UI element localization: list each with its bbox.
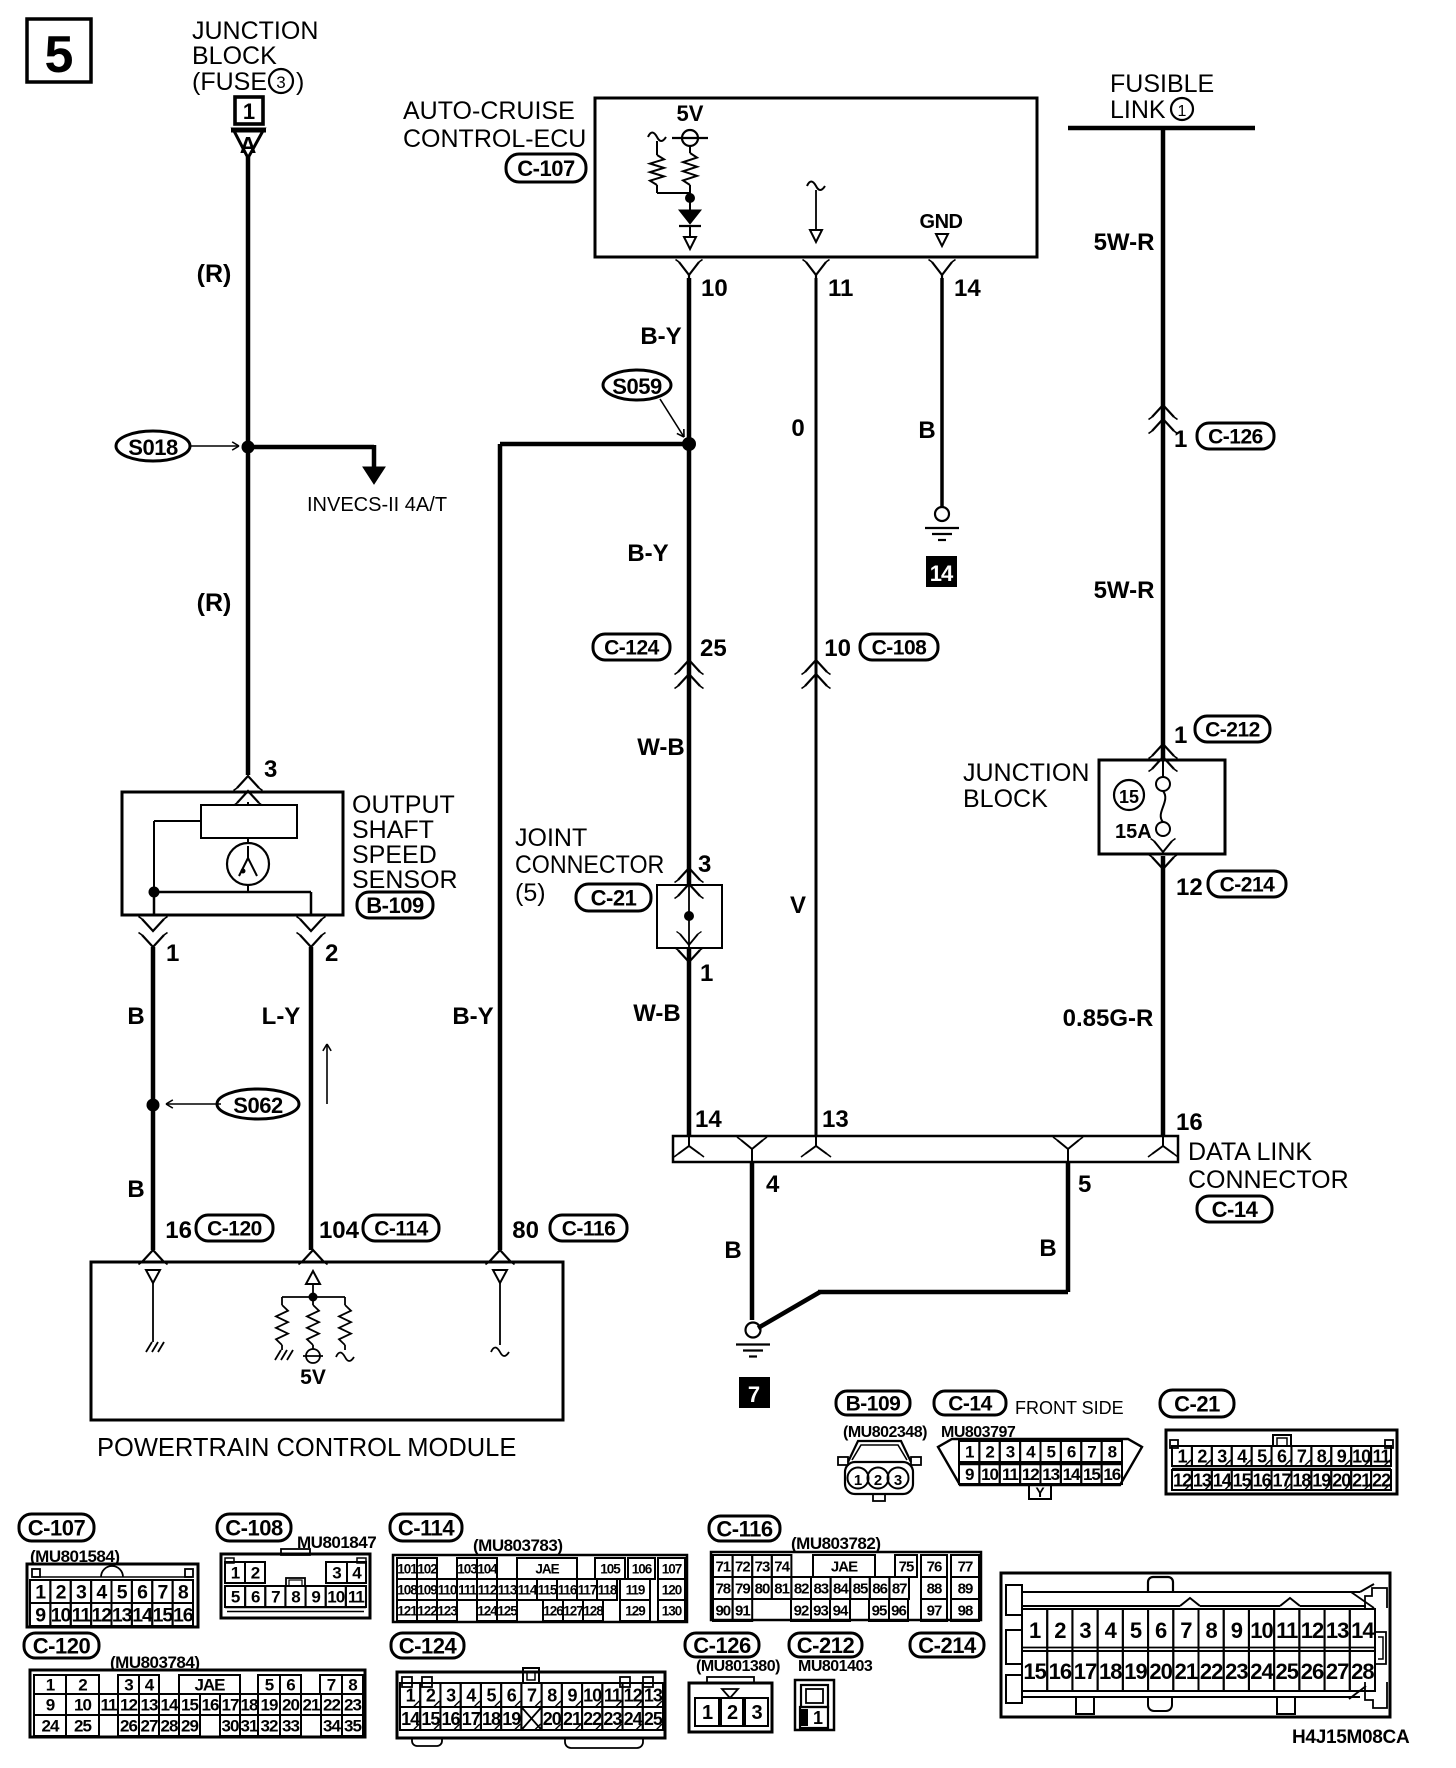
svg-text:16: 16 [1176, 1109, 1203, 1136]
svg-text:12: 12 [1301, 1618, 1324, 1643]
svg-text:2: 2 [325, 940, 338, 967]
svg-text:21: 21 [303, 1696, 320, 1715]
svg-text:128: 128 [583, 1603, 604, 1618]
svg-text:5: 5 [1130, 1618, 1142, 1643]
svg-text:81: 81 [774, 1580, 789, 1597]
svg-text:2: 2 [985, 1443, 994, 1462]
svg-text:116: 116 [558, 1582, 578, 1597]
svg-text:5: 5 [487, 1685, 497, 1705]
svg-text:11: 11 [348, 1588, 365, 1607]
svg-text:C-114: C-114 [374, 1218, 428, 1241]
svg-text:C-214: C-214 [1220, 874, 1276, 897]
svg-text:107: 107 [662, 1561, 682, 1576]
svg-text:94: 94 [833, 1602, 849, 1619]
svg-text:11: 11 [1002, 1465, 1019, 1484]
svg-text:102: 102 [417, 1561, 437, 1576]
svg-text:7: 7 [1180, 1618, 1192, 1643]
svg-text:(5): (5) [515, 879, 546, 907]
svg-text:C-214: C-214 [918, 1633, 977, 1658]
svg-text:AUTO-CRUISE: AUTO-CRUISE [403, 97, 575, 125]
svg-text:30: 30 [222, 1717, 239, 1736]
svg-text:22: 22 [323, 1696, 340, 1715]
svg-text:97: 97 [927, 1602, 942, 1619]
svg-text:84: 84 [833, 1580, 849, 1597]
svg-text:4: 4 [352, 1564, 362, 1583]
svg-text:4: 4 [1105, 1618, 1118, 1643]
svg-text:8: 8 [348, 1676, 357, 1695]
svg-text:28: 28 [161, 1717, 178, 1736]
svg-text:11: 11 [72, 1605, 92, 1627]
svg-text:13: 13 [822, 1106, 849, 1133]
svg-text:127: 127 [563, 1603, 583, 1618]
svg-text:7: 7 [748, 1382, 760, 1407]
svg-text:15: 15 [1119, 787, 1139, 807]
svg-text:C-21: C-21 [591, 885, 637, 910]
svg-text:33: 33 [282, 1717, 299, 1736]
svg-text:C-126: C-126 [1208, 426, 1263, 449]
svg-text:19: 19 [261, 1696, 278, 1715]
svg-text:5: 5 [117, 1582, 128, 1604]
svg-text:S018: S018 [128, 435, 178, 460]
svg-text:1: 1 [700, 960, 713, 987]
svg-text:15: 15 [181, 1696, 198, 1715]
svg-text:75: 75 [899, 1558, 914, 1575]
svg-text:B-109: B-109 [846, 1393, 901, 1416]
svg-text:8: 8 [291, 1588, 300, 1607]
svg-text:8: 8 [1317, 1446, 1327, 1466]
svg-text:17: 17 [1272, 1470, 1291, 1490]
svg-text:5V: 5V [677, 101, 704, 126]
svg-text:101: 101 [397, 1561, 418, 1576]
svg-text:26: 26 [1301, 1659, 1324, 1684]
svg-text:2: 2 [78, 1676, 87, 1695]
svg-text:5V: 5V [300, 1366, 326, 1389]
svg-text:12: 12 [91, 1605, 112, 1627]
svg-text:20: 20 [1332, 1470, 1351, 1490]
svg-text:19: 19 [1124, 1659, 1147, 1684]
svg-text:0.85G-R: 0.85G-R [1063, 1005, 1154, 1032]
svg-text:72: 72 [735, 1558, 750, 1575]
svg-text:32: 32 [261, 1717, 278, 1736]
svg-text:35: 35 [344, 1717, 361, 1736]
svg-text:6: 6 [1155, 1618, 1167, 1643]
svg-text:79: 79 [735, 1580, 750, 1597]
svg-text:106: 106 [632, 1561, 653, 1576]
svg-text:88: 88 [927, 1580, 942, 1597]
svg-text:82: 82 [794, 1580, 809, 1597]
svg-text:1: 1 [1178, 103, 1187, 120]
svg-text:7: 7 [327, 1676, 336, 1695]
svg-text:1: 1 [1177, 1446, 1187, 1466]
svg-text:10: 10 [51, 1605, 72, 1627]
svg-text:11: 11 [1276, 1618, 1298, 1643]
svg-text:1: 1 [1029, 1618, 1041, 1643]
svg-text:SPEED: SPEED [352, 841, 437, 869]
svg-text:31: 31 [241, 1717, 258, 1736]
svg-text:C-108: C-108 [225, 1515, 283, 1540]
svg-text:5W-R: 5W-R [1094, 229, 1155, 256]
svg-text:9: 9 [35, 1605, 46, 1627]
svg-text:(MU803782): (MU803782) [791, 1534, 881, 1553]
svg-text:14: 14 [1063, 1465, 1081, 1484]
svg-text:18: 18 [1099, 1659, 1122, 1684]
svg-text:85: 85 [853, 1580, 868, 1597]
svg-text:0: 0 [791, 415, 804, 442]
svg-text:8: 8 [547, 1685, 557, 1705]
svg-text:114: 114 [518, 1582, 538, 1597]
svg-text:129: 129 [625, 1603, 645, 1618]
svg-text:L-Y: L-Y [262, 1003, 301, 1030]
svg-text:4: 4 [1026, 1443, 1036, 1462]
svg-text:5: 5 [45, 26, 74, 84]
svg-text:2: 2 [727, 1702, 738, 1724]
svg-text:JUNCTION: JUNCTION [192, 17, 318, 45]
svg-text:B: B [1039, 1235, 1056, 1262]
svg-text:1: 1 [46, 1676, 55, 1695]
svg-text:92: 92 [794, 1602, 809, 1619]
svg-text:112: 112 [478, 1582, 497, 1597]
svg-text:B-Y: B-Y [640, 323, 681, 350]
svg-text:3: 3 [1079, 1618, 1091, 1643]
svg-text:121: 121 [397, 1603, 418, 1618]
svg-text:14: 14 [695, 1106, 722, 1133]
svg-text:1: 1 [35, 1582, 46, 1604]
svg-text:6: 6 [286, 1676, 295, 1695]
svg-text:5: 5 [1046, 1443, 1055, 1462]
svg-text:104: 104 [319, 1217, 360, 1244]
svg-text:10: 10 [1250, 1618, 1273, 1643]
svg-text:27: 27 [141, 1717, 158, 1736]
svg-text:18: 18 [241, 1696, 258, 1715]
svg-text:8: 8 [178, 1582, 189, 1604]
svg-text:(MU801380): (MU801380) [696, 1658, 780, 1675]
svg-text:20: 20 [1149, 1659, 1172, 1684]
svg-text:2: 2 [251, 1564, 260, 1583]
svg-text:10: 10 [701, 275, 728, 302]
svg-text:SENSOR: SENSOR [352, 866, 458, 894]
svg-text:77: 77 [958, 1558, 973, 1575]
svg-text:7: 7 [527, 1685, 537, 1705]
svg-text:5: 5 [1078, 1171, 1091, 1198]
svg-text:): ) [296, 68, 304, 96]
svg-text:2: 2 [426, 1685, 436, 1705]
svg-text:7: 7 [158, 1582, 168, 1604]
svg-text:C-21: C-21 [1174, 1391, 1220, 1416]
svg-text:9: 9 [567, 1685, 577, 1705]
svg-text:16: 16 [1253, 1470, 1272, 1490]
svg-text:23: 23 [344, 1696, 361, 1715]
svg-text:13: 13 [1042, 1465, 1059, 1484]
svg-text:20: 20 [282, 1696, 299, 1715]
svg-text:14: 14 [1351, 1618, 1375, 1643]
svg-text:11: 11 [1373, 1446, 1391, 1466]
svg-text:15: 15 [1233, 1470, 1252, 1490]
svg-text:B-109: B-109 [366, 893, 424, 918]
svg-text:3: 3 [76, 1582, 87, 1604]
svg-text:C-107: C-107 [28, 1515, 86, 1540]
svg-text:3: 3 [894, 1472, 902, 1489]
svg-text:3: 3 [124, 1676, 133, 1695]
svg-text:12: 12 [1022, 1465, 1039, 1484]
svg-text:B: B [724, 1237, 741, 1264]
svg-text:10: 10 [74, 1696, 91, 1715]
svg-text:2: 2 [56, 1582, 67, 1604]
svg-text:JAE: JAE [831, 1558, 858, 1575]
svg-text:16: 16 [173, 1605, 194, 1627]
svg-text:83: 83 [813, 1580, 828, 1597]
svg-text:111: 111 [458, 1582, 478, 1597]
svg-text:6: 6 [251, 1588, 260, 1607]
svg-text:C-212: C-212 [797, 1633, 855, 1658]
svg-text:BLOCK: BLOCK [963, 785, 1048, 813]
svg-text:FUSIBLE: FUSIBLE [1110, 70, 1214, 98]
svg-text:2: 2 [874, 1472, 882, 1489]
svg-text:9: 9 [1231, 1618, 1243, 1643]
svg-text:4: 4 [1237, 1446, 1247, 1466]
svg-text:3: 3 [264, 756, 277, 783]
svg-text:V: V [790, 892, 806, 919]
svg-text:CONTROL-ECU: CONTROL-ECU [403, 125, 586, 153]
svg-text:FRONT SIDE: FRONT SIDE [1015, 1398, 1124, 1418]
svg-text:C-120: C-120 [207, 1218, 262, 1241]
svg-text:JUNCTION: JUNCTION [963, 759, 1089, 787]
svg-text:80: 80 [755, 1580, 770, 1597]
svg-text:87: 87 [892, 1580, 907, 1597]
svg-text:119: 119 [626, 1582, 645, 1597]
svg-text:16: 16 [165, 1217, 192, 1244]
svg-text:25: 25 [74, 1717, 91, 1736]
svg-text:B: B [127, 1176, 144, 1203]
svg-text:120: 120 [662, 1582, 682, 1597]
svg-text:25: 25 [700, 635, 727, 662]
svg-text:2: 2 [1054, 1618, 1066, 1643]
svg-text:10: 10 [981, 1465, 998, 1484]
svg-text:C-14: C-14 [1212, 1197, 1259, 1222]
svg-text:113: 113 [498, 1582, 518, 1597]
svg-text:80: 80 [512, 1217, 539, 1244]
svg-text:16: 16 [202, 1696, 219, 1715]
svg-text:DATA LINK: DATA LINK [1188, 1138, 1312, 1166]
svg-text:C-124: C-124 [604, 637, 660, 660]
svg-text:6: 6 [507, 1685, 517, 1705]
svg-text:123: 123 [437, 1603, 458, 1618]
svg-text:1: 1 [965, 1443, 974, 1462]
svg-text:71: 71 [715, 1558, 730, 1575]
svg-text:C-108: C-108 [872, 637, 928, 660]
svg-text:C-114: C-114 [398, 1515, 455, 1540]
svg-text:86: 86 [872, 1580, 887, 1597]
svg-text:Y: Y [1035, 1484, 1045, 1500]
svg-text:C-116: C-116 [562, 1218, 616, 1241]
svg-text:7: 7 [271, 1588, 280, 1607]
svg-text:130: 130 [662, 1603, 682, 1618]
svg-text:B-Y: B-Y [452, 1003, 493, 1030]
svg-text:W-B: W-B [633, 1000, 681, 1027]
svg-text:125: 125 [497, 1603, 518, 1618]
svg-text:4: 4 [466, 1685, 476, 1705]
svg-text:C-124: C-124 [399, 1633, 458, 1658]
svg-text:B: B [127, 1003, 144, 1030]
svg-text:10: 10 [1352, 1446, 1371, 1466]
svg-text:3: 3 [1217, 1446, 1227, 1466]
svg-text:(R): (R) [197, 260, 232, 288]
svg-text:S062: S062 [233, 1093, 283, 1118]
svg-text:78: 78 [715, 1580, 730, 1597]
svg-text:14: 14 [930, 561, 954, 586]
svg-text:14: 14 [161, 1696, 179, 1715]
svg-text:10: 10 [327, 1588, 344, 1607]
svg-text:17: 17 [1074, 1659, 1097, 1684]
svg-text:JAE: JAE [535, 1561, 559, 1576]
svg-text:25: 25 [1276, 1659, 1299, 1684]
svg-text:7: 7 [1297, 1446, 1307, 1466]
svg-text:C-126: C-126 [693, 1633, 751, 1658]
svg-text:A: A [240, 132, 257, 158]
svg-text:1: 1 [243, 99, 255, 124]
svg-text:(R): (R) [197, 589, 232, 617]
svg-text:GND: GND [920, 211, 963, 233]
svg-text:13: 13 [141, 1696, 158, 1715]
svg-text:24: 24 [42, 1717, 60, 1736]
svg-text:13: 13 [1326, 1618, 1349, 1643]
svg-text:1: 1 [702, 1702, 713, 1724]
svg-text:INVECS-II 4A/T: INVECS-II 4A/T [307, 494, 447, 516]
svg-text:12: 12 [120, 1696, 137, 1715]
svg-text:13: 13 [1193, 1470, 1212, 1490]
svg-text:LINK: LINK [1110, 96, 1166, 124]
svg-text:1: 1 [1174, 722, 1187, 749]
svg-text:12: 12 [1176, 874, 1203, 901]
svg-text:1: 1 [1174, 426, 1187, 453]
svg-text:26: 26 [120, 1717, 137, 1736]
svg-text:(MU802348): (MU802348) [843, 1424, 927, 1441]
svg-text:9: 9 [1337, 1446, 1347, 1466]
svg-text:6: 6 [1277, 1446, 1287, 1466]
svg-text:5: 5 [1257, 1446, 1267, 1466]
svg-text:13: 13 [112, 1605, 133, 1627]
svg-text:21: 21 [1352, 1470, 1371, 1490]
svg-text:3: 3 [751, 1702, 762, 1724]
svg-text:POWERTRAIN CONTROL MODULE: POWERTRAIN CONTROL MODULE [97, 1434, 516, 1462]
svg-text:9: 9 [311, 1588, 320, 1607]
svg-text:16: 16 [1103, 1465, 1120, 1484]
svg-text:C-212: C-212 [1205, 719, 1260, 742]
svg-text:(MU803783): (MU803783) [473, 1536, 563, 1555]
svg-text:12: 12 [1173, 1470, 1192, 1490]
svg-text:1: 1 [231, 1564, 240, 1583]
svg-text:93: 93 [813, 1602, 828, 1619]
svg-text:122: 122 [417, 1603, 437, 1618]
svg-text:2: 2 [1197, 1446, 1207, 1466]
svg-text:9: 9 [46, 1696, 55, 1715]
svg-text:118: 118 [598, 1582, 618, 1597]
svg-text:103: 103 [457, 1561, 478, 1576]
svg-text:4: 4 [766, 1171, 780, 1198]
svg-text:MU801403: MU801403 [798, 1658, 873, 1675]
svg-text:95: 95 [872, 1602, 887, 1619]
svg-text:109: 109 [417, 1582, 437, 1597]
svg-text:11: 11 [101, 1696, 118, 1715]
svg-text:117: 117 [578, 1582, 597, 1597]
svg-text:3: 3 [332, 1564, 341, 1583]
svg-text:4: 4 [96, 1582, 107, 1604]
svg-text:JAE: JAE [194, 1676, 225, 1695]
svg-text:OUTPUT: OUTPUT [352, 791, 455, 819]
svg-text:3: 3 [698, 851, 711, 878]
svg-text:B-Y: B-Y [627, 540, 668, 567]
svg-text:124: 124 [477, 1603, 498, 1618]
svg-text:C-107: C-107 [517, 156, 575, 181]
svg-text:C-14: C-14 [948, 1393, 992, 1416]
svg-text:S059: S059 [612, 374, 662, 399]
svg-text:74: 74 [774, 1558, 790, 1575]
svg-text:115: 115 [538, 1582, 558, 1597]
svg-text:19: 19 [1312, 1470, 1331, 1490]
svg-text:1: 1 [854, 1472, 862, 1489]
svg-text:1: 1 [406, 1685, 416, 1705]
svg-text:73: 73 [755, 1558, 770, 1575]
svg-text:15: 15 [153, 1605, 174, 1627]
svg-text:8: 8 [1205, 1618, 1217, 1643]
svg-text:96: 96 [891, 1602, 906, 1619]
svg-text:89: 89 [958, 1580, 973, 1597]
svg-text:8: 8 [1108, 1443, 1117, 1462]
svg-text:B: B [918, 417, 935, 444]
svg-text:11: 11 [828, 275, 853, 302]
svg-text:SHAFT: SHAFT [352, 816, 434, 844]
svg-text:27: 27 [1326, 1659, 1349, 1684]
svg-text:98: 98 [958, 1602, 973, 1619]
svg-text:90: 90 [715, 1602, 730, 1619]
svg-text:JOINT: JOINT [515, 824, 587, 852]
svg-text:22: 22 [1200, 1659, 1223, 1684]
svg-text:21: 21 [1175, 1659, 1198, 1684]
svg-text:C-120: C-120 [33, 1633, 91, 1658]
svg-text:29: 29 [181, 1717, 198, 1736]
svg-text:126: 126 [543, 1603, 564, 1618]
svg-text:5: 5 [231, 1588, 240, 1607]
svg-text:3: 3 [1006, 1443, 1015, 1462]
svg-text:110: 110 [438, 1582, 457, 1597]
svg-text:23: 23 [1225, 1659, 1248, 1684]
svg-text:CONNECTOR: CONNECTOR [1188, 1166, 1349, 1194]
svg-text:34: 34 [323, 1717, 341, 1736]
svg-text:3: 3 [446, 1685, 456, 1705]
svg-text:BLOCK: BLOCK [192, 42, 277, 70]
svg-text:104: 104 [477, 1561, 498, 1576]
svg-text:(FUSE: (FUSE [192, 68, 267, 96]
svg-text:14: 14 [132, 1605, 153, 1627]
svg-text:6: 6 [137, 1582, 148, 1604]
svg-text:105: 105 [600, 1561, 621, 1576]
svg-text:14: 14 [1213, 1470, 1232, 1490]
svg-text:10: 10 [824, 635, 851, 662]
svg-text:15: 15 [1023, 1659, 1046, 1684]
svg-text:1: 1 [813, 1708, 823, 1728]
svg-text:W-B: W-B [637, 734, 685, 761]
svg-text:91: 91 [735, 1602, 750, 1619]
svg-text:22: 22 [1372, 1470, 1391, 1490]
svg-text:3: 3 [276, 73, 285, 92]
svg-text:7: 7 [1087, 1443, 1096, 1462]
svg-text:15: 15 [1083, 1465, 1100, 1484]
svg-text:76: 76 [927, 1558, 942, 1575]
svg-text:CONNECTOR: CONNECTOR [515, 851, 664, 879]
svg-text:C-116: C-116 [716, 1516, 772, 1541]
svg-text:5: 5 [265, 1676, 274, 1695]
svg-text:16: 16 [1049, 1659, 1072, 1684]
svg-text:H4J15M08CA: H4J15M08CA [1292, 1727, 1410, 1748]
